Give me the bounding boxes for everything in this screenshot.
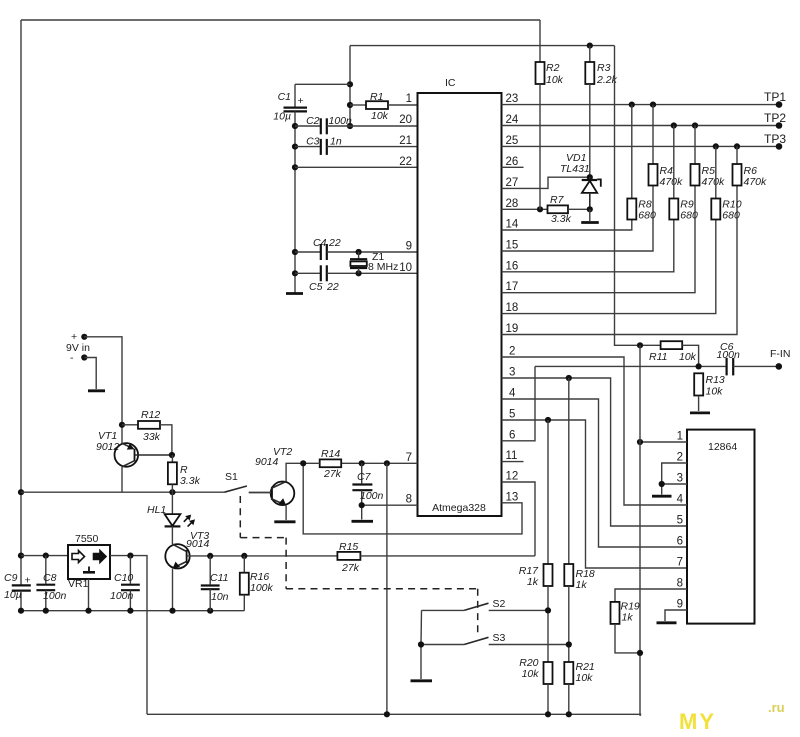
svg-text:23: 23 (506, 93, 519, 105)
svg-text:R1: R1 (370, 91, 383, 103)
node x640 / lcd pin1 (637, 439, 643, 445)
pin number 22 (399, 156, 412, 168)
pin number 16 (506, 260, 519, 272)
svg-text:10k: 10k (706, 386, 724, 398)
node R11-line / x640 riser (637, 342, 643, 348)
wire pin 15 to R4 (502, 186, 654, 252)
svg-text:10k: 10k (576, 672, 594, 684)
resistor R 3.3k (168, 455, 201, 492)
resistor R2 10k (536, 20, 564, 209)
node VT3 base line R16 (241, 553, 247, 559)
svg-text:S1: S1 (225, 471, 238, 483)
svg-text:33k: 33k (143, 431, 161, 443)
svg-text:1k: 1k (622, 612, 634, 624)
node pin20-line/x350 (347, 123, 353, 129)
wire pin 19 to R6 (502, 186, 738, 335)
svg-text:7550: 7550 (75, 533, 99, 545)
svg-text:100n: 100n (110, 590, 134, 602)
LED HL1 (147, 492, 195, 544)
node bottom rail R20 (545, 711, 551, 717)
node x295/pin22 (292, 164, 298, 170)
svg-text:HL1: HL1 (147, 504, 166, 516)
svg-text:100k: 100k (250, 582, 274, 594)
pin number lcd8 (677, 578, 683, 590)
pin number lcd3 (677, 473, 683, 485)
pin number 28 (506, 198, 519, 210)
resistor R9 680 (669, 122, 698, 221)
ground below C5 column (286, 292, 303, 295)
svg-text:F-IN: F-IN (770, 348, 790, 360)
resistor R3 2.2k (585, 43, 617, 178)
resistor R6 470k (733, 143, 768, 188)
svg-text:9014: 9014 (255, 456, 279, 468)
wire pin 13 loop to R14 left (303, 463, 522, 534)
wire x388 VCC riser (386, 463, 388, 714)
svg-text:3: 3 (509, 367, 515, 379)
svg-text:10n: 10n (211, 591, 229, 603)
switch S1 (21, 471, 271, 493)
wire 12864 pin 9 to ground (665, 610, 687, 621)
svg-text:TP3: TP3 (764, 132, 786, 146)
svg-text:TP2: TP2 (764, 111, 786, 125)
diode VD1 TL431 (560, 152, 601, 223)
switch S2 (422, 598, 552, 614)
pin number 14 (506, 219, 519, 231)
svg-text:470k: 470k (744, 176, 768, 188)
node gnd rail VT3 emitter (169, 608, 175, 614)
wire 12864 pin 4 to IC pin 2 (624, 366, 687, 505)
ground S2/S3 (411, 679, 433, 682)
svg-text:22: 22 (328, 237, 341, 249)
capacitor C10 100n (110, 556, 140, 611)
svg-text:3: 3 (677, 473, 683, 485)
svg-text:10µ: 10µ (273, 111, 291, 123)
resistor R18 1k (564, 378, 595, 662)
pin number 26 (506, 156, 519, 168)
node pin7 / C7 top (359, 460, 365, 466)
wire bottom VCC rail (147, 714, 641, 716)
node VT1 base / R12 / R junction (169, 452, 175, 458)
svg-text:C4: C4 (313, 237, 327, 249)
svg-text:R11: R11 (649, 351, 667, 363)
wire pin 11 stub (502, 461, 524, 463)
pin number lcd4 (677, 494, 684, 506)
svg-text:22: 22 (326, 281, 339, 293)
svg-text:C7: C7 (357, 471, 372, 483)
pin number 20 (399, 114, 412, 126)
wire pin 24 / TP2 line (502, 125, 780, 127)
svg-text:14: 14 (506, 219, 519, 231)
wire VCC secondary top line (350, 45, 615, 47)
svg-text:S3: S3 (493, 632, 506, 644)
pin number 21 (399, 135, 412, 147)
node x295/pin10 (292, 270, 298, 276)
svg-text:13: 13 (506, 491, 519, 503)
svg-text:100n: 100n (329, 115, 353, 127)
svg-text:S2: S2 (493, 598, 506, 610)
svg-text:26: 26 (506, 156, 519, 168)
svg-text:1k: 1k (527, 576, 539, 588)
node gnd rail C8 (43, 608, 49, 614)
svg-text:21: 21 (399, 135, 412, 147)
wire vertical x350 VCC drop (349, 46, 351, 126)
svg-text:680: 680 (722, 210, 740, 222)
transistor VT3 9014 (165, 530, 209, 611)
ground under VT2 (274, 520, 295, 523)
node R/HL1 junction (169, 489, 175, 495)
svg-text:MY: MY (679, 709, 716, 734)
svg-text:3.3k: 3.3k (551, 213, 572, 225)
node R1-line/x350 (347, 102, 353, 108)
svg-text:5: 5 (677, 515, 683, 527)
svg-text:C9: C9 (4, 572, 18, 584)
svg-text:27k: 27k (323, 468, 342, 480)
wire pin 2 to F-IN line (502, 357, 625, 366)
wire 12864 pin 2-3 to ground (659, 463, 687, 495)
node C1-line/x350 (347, 81, 353, 87)
pin number 1 (406, 93, 412, 105)
svg-text:8: 8 (406, 494, 412, 506)
node gnd rail C11 (207, 608, 213, 614)
node x295/pin20 (292, 123, 298, 129)
wire pin 14 to R8 (502, 220, 632, 231)
pin number 12 (506, 471, 519, 483)
svg-text:2: 2 (677, 452, 683, 464)
node TP2 terminal (764, 111, 786, 129)
node pin28/R2 junction (537, 206, 543, 212)
pin number lcd7 (677, 557, 683, 569)
ground lcd pins 2-3 (652, 495, 672, 498)
svg-text:R12: R12 (141, 409, 160, 421)
wire top VCC-unreg rail (21, 19, 540, 21)
resistor R8 680 (627, 102, 656, 222)
svg-text:Atmega328: Atmega328 (432, 502, 486, 514)
pin number lcd1 (677, 431, 683, 443)
watermark MY .ru (679, 700, 785, 734)
svg-text:TP1: TP1 (764, 90, 786, 104)
svg-text:470k: 470k (660, 176, 684, 188)
svg-text:R15: R15 (339, 541, 358, 553)
node gnd rail VR1 (85, 608, 91, 614)
node R11/R13/C6 junction (696, 363, 702, 369)
wire pin 5 to 12864 pin 7 (502, 420, 688, 568)
resistor R21 10k (564, 661, 594, 714)
node left-rail / 7550-input junction (18, 553, 24, 559)
wire pin 4 to 12864 pin 6 (502, 399, 688, 547)
svg-text:9012: 9012 (96, 441, 120, 453)
pin number 15 (506, 240, 519, 252)
svg-text:10k: 10k (371, 110, 389, 122)
svg-text:TL431: TL431 (560, 163, 590, 175)
svg-text:22: 22 (399, 156, 412, 168)
svg-text:18: 18 (506, 302, 519, 314)
svg-text:C3: C3 (306, 136, 320, 148)
transistor VT1 9012 (96, 430, 172, 492)
capacitor C4 22 (pin 9 line) (295, 237, 418, 260)
wire 7550 output line (110, 556, 147, 715)
node pin3 / R18 junction (566, 375, 572, 381)
pin number lcd2 (677, 452, 683, 464)
node TP3 terminal (764, 132, 786, 150)
svg-text:6: 6 (677, 536, 683, 548)
svg-text:R14: R14 (321, 448, 340, 460)
resistor R10 680 (711, 143, 741, 221)
svg-text:680: 680 (680, 210, 698, 222)
pin number 7 (406, 452, 412, 464)
pin number 11 (506, 450, 518, 462)
svg-text:27: 27 (506, 177, 519, 189)
wire F-IN line (535, 365, 727, 367)
display 12864 box (687, 430, 755, 624)
resistor R14 27k (286, 448, 342, 482)
svg-text:R2: R2 (546, 62, 560, 74)
node bottom rail x388 (384, 711, 390, 717)
svg-text:8 MHz: 8 MHz (368, 261, 398, 273)
node pin5 / R17 junction (545, 417, 551, 423)
node pin7 / x388 riser (384, 460, 390, 466)
resistor R13 10k (694, 373, 725, 411)
node gnd rail C9 (18, 608, 24, 614)
svg-text:1n: 1n (330, 136, 342, 148)
capacitor C3 1n (pin 21 line) (295, 136, 418, 155)
wire pin 22 line (295, 166, 418, 168)
node x295/pin9 (292, 249, 298, 255)
svg-text:15: 15 (506, 240, 519, 252)
svg-text:R3: R3 (597, 62, 611, 74)
wire x640 VCC riser (639, 345, 641, 716)
svg-text:10k: 10k (522, 668, 540, 680)
wire pin 16 to R9 (502, 220, 674, 272)
resistor R16 100k (240, 556, 274, 611)
capacitor C9 10u (4, 572, 31, 611)
wire pin 18 to R10 (502, 220, 716, 314)
wire pin 25 / TP3 line (502, 145, 780, 147)
svg-text:R7: R7 (550, 194, 565, 206)
svg-text:C11: C11 (210, 572, 228, 584)
pin number lcd5 (677, 515, 683, 527)
pin number 27 (506, 177, 519, 189)
svg-text:19: 19 (506, 323, 519, 335)
wire left column x295 (294, 111, 296, 292)
svg-text:9014: 9014 (186, 538, 210, 550)
pin number 5 (509, 409, 515, 421)
svg-text:9: 9 (677, 599, 683, 611)
node gnd rail C10 (127, 608, 133, 614)
capacitor C7 100n (352, 463, 383, 519)
wire VR1 ground pin (88, 579, 90, 611)
svg-text:20: 20 (399, 114, 412, 126)
pin number 10 (399, 262, 412, 274)
ground under C7 (352, 520, 374, 523)
svg-text:+: + (298, 95, 304, 107)
svg-text:680: 680 (638, 210, 656, 222)
op-amp IC ATmega328 box (418, 77, 502, 516)
svg-text:12: 12 (506, 471, 519, 483)
crystal Z1 8 MHz (350, 249, 398, 277)
svg-text:8: 8 (677, 578, 683, 590)
svg-text:10k: 10k (679, 351, 697, 363)
wire pin 27 to TL431 cathode (502, 177, 590, 188)
node R19 / x640 (637, 650, 643, 656)
node C10 top (127, 553, 133, 559)
svg-text:5: 5 (509, 409, 515, 421)
wire left rail (battery plus) (20, 20, 22, 585)
wire pin 6 up to F-IN line (502, 366, 536, 440)
wire pin 26 stub (502, 166, 524, 168)
resistor R11 10k (649, 341, 699, 366)
transistor VT2 9014 (249, 446, 295, 520)
pin number lcd9 (677, 599, 683, 611)
svg-text:17: 17 (506, 281, 519, 293)
node bottom rail R21 (566, 711, 572, 717)
node TP1 terminal (764, 90, 786, 108)
capacitor C2 100n (pin 20 line) (295, 115, 418, 134)
pin number 4 (509, 388, 516, 400)
resistor R12 33k (119, 409, 172, 455)
svg-text:3.3k: 3.3k (180, 475, 201, 487)
wire 7550 input line (21, 555, 68, 557)
ground under R13 (690, 411, 710, 414)
pin number 23 (506, 93, 519, 105)
svg-text:IC: IC (445, 77, 456, 89)
pin number 19 (506, 323, 519, 335)
node F-IN terminal (770, 348, 790, 370)
wire pin 3 to 12864 pin 5 (502, 378, 688, 526)
regulator VR1 7550 (68, 533, 110, 590)
wire pin 17 to R5 (502, 186, 696, 293)
pin number lcd6 (677, 536, 683, 548)
resistor R5 470k (691, 122, 726, 188)
svg-text:.ru: .ru (768, 700, 785, 715)
pin number 9 (406, 241, 412, 253)
wire S2/S3 common to ground (418, 610, 424, 679)
pin number 17 (506, 281, 519, 293)
pin number 2 (509, 346, 515, 358)
switch S3 (421, 632, 572, 648)
svg-text:+: + (25, 575, 31, 587)
svg-text:12864: 12864 (708, 441, 737, 453)
svg-text:10: 10 (399, 262, 412, 274)
node left-rail / S1-line junction (18, 489, 24, 495)
svg-text:2: 2 (509, 346, 515, 358)
pin number 24 (506, 114, 519, 126)
svg-text:24: 24 (506, 114, 519, 126)
svg-text:10k: 10k (546, 74, 564, 86)
wire pin 7 line (341, 462, 417, 464)
wire C1 top lead (295, 84, 350, 107)
svg-text:1: 1 (677, 431, 683, 443)
resistor R19 1k (611, 601, 641, 653)
svg-text:1k: 1k (576, 579, 588, 591)
node VT3 base line C11 (207, 553, 213, 559)
ground lcd pin 9 (657, 621, 677, 624)
svg-text:27k: 27k (341, 562, 360, 574)
pin number 3 (509, 367, 515, 379)
wire 12864 pin 1 (640, 441, 687, 443)
pin number 18 (506, 302, 519, 314)
svg-text:6: 6 (509, 429, 515, 441)
wire VCC drop x614 to R11 line (615, 46, 661, 346)
pin number 13 (506, 491, 519, 503)
resistor R4 470k (649, 102, 684, 189)
svg-text:100n: 100n (717, 349, 741, 361)
node C8 top (43, 553, 49, 559)
wire VT3 base line (R15 net) (187, 555, 338, 557)
resistor R15 27k (337, 541, 535, 574)
resistor R20 10k (519, 657, 552, 714)
svg-text:-: - (70, 352, 74, 364)
wire dashed S1-S2-S3 linkage (240, 496, 477, 637)
pin number 8 (406, 494, 412, 506)
svg-text:25: 25 (506, 135, 519, 147)
wire ground rail (21, 610, 244, 612)
node x295/pin21 (292, 144, 298, 150)
wire pin 8 line (362, 504, 418, 506)
svg-text:9: 9 (406, 241, 412, 253)
svg-text:11: 11 (506, 450, 518, 462)
svg-text:7: 7 (677, 557, 683, 569)
svg-text:C10: C10 (114, 572, 133, 584)
wire pin 23 / TP1 line (502, 104, 780, 106)
svg-text:10µ: 10µ (4, 589, 22, 601)
wire 9V+ input (66, 331, 122, 443)
capacitor C5 22 (pin 10 line) (295, 265, 418, 293)
svg-text:R13: R13 (706, 374, 725, 386)
capacitor C1 10u (273, 91, 307, 123)
svg-text:4: 4 (509, 388, 516, 400)
svg-text:100n: 100n (360, 490, 384, 502)
wire 12864 pin 8 to R19 (615, 589, 687, 602)
svg-text:C8: C8 (43, 572, 57, 584)
capacitor C6 100n (717, 341, 779, 375)
wire pin 12 to VT3 base line (502, 482, 536, 556)
resistor R17 1k (519, 420, 553, 662)
svg-text:28: 28 (506, 198, 519, 210)
svg-text:7: 7 (406, 452, 412, 464)
pin number 25 (506, 135, 519, 147)
capacitor C11 10n (201, 556, 229, 611)
ground 9V minus (88, 389, 105, 392)
svg-text:C2: C2 (306, 115, 320, 127)
svg-text:VR1: VR1 (68, 578, 89, 590)
svg-text:4: 4 (677, 494, 684, 506)
svg-text:1: 1 (406, 93, 412, 105)
wire pin 28 line (502, 208, 548, 210)
resistor R7 3.3k (548, 194, 590, 225)
svg-text:100n: 100n (43, 590, 67, 602)
svg-text:C1: C1 (278, 91, 291, 103)
svg-text:16: 16 (506, 260, 519, 272)
resistor R1 10k (350, 91, 418, 122)
node R14 left / VT2 collector / pin13 loop (300, 460, 306, 466)
wire 9V- input to ground (70, 352, 96, 389)
svg-text:C5: C5 (309, 281, 323, 293)
svg-text:470k: 470k (702, 176, 726, 188)
capacitor C8 100n (36, 556, 66, 611)
pin number 6 (509, 429, 515, 441)
